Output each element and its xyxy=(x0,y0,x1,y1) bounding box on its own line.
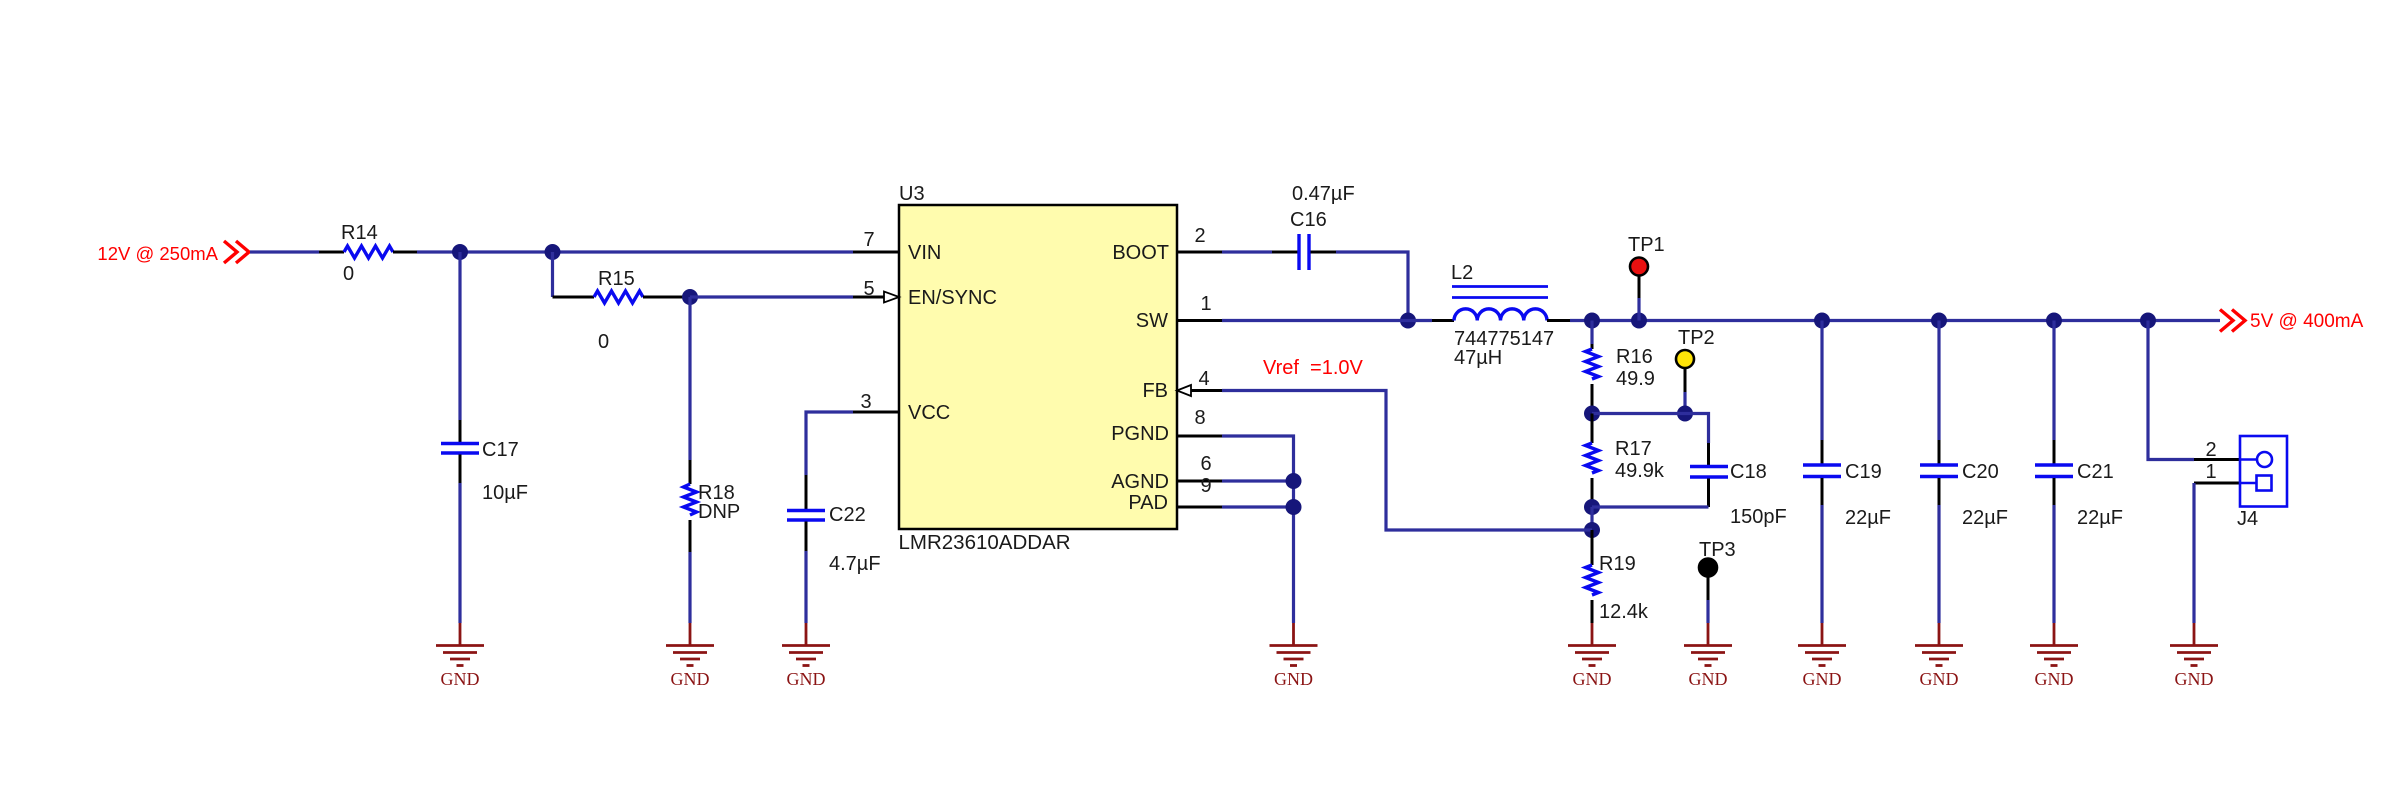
U3 pin 1 (SW) stub xyxy=(1177,319,1222,322)
svg-text:SW: SW xyxy=(1136,310,1168,332)
node junction C19 xyxy=(1814,313,1830,329)
resistor R18 DNP xyxy=(688,297,691,460)
ground under C22 xyxy=(782,623,830,689)
capacitor C21 xyxy=(2052,321,2055,441)
U3 pin 8 (PGND) stub xyxy=(1177,435,1222,438)
svg-text:1: 1 xyxy=(1200,293,1211,315)
svg-text:150pF: 150pF xyxy=(1730,506,1787,528)
output port chevrons xyxy=(2220,310,2233,332)
wire SW pin xyxy=(1222,319,1432,322)
test point TP2 xyxy=(1676,350,1694,368)
wire C18 bottom to R17 bottom xyxy=(1592,505,1709,508)
svg-text:R19: R19 xyxy=(1599,553,1636,575)
svg-text:12V @ 250mA: 12V @ 250mA xyxy=(97,243,218,264)
svg-text:1: 1 xyxy=(2205,461,2216,483)
svg-text:12.4k: 12.4k xyxy=(1599,601,1649,623)
wire AGND xyxy=(1222,479,1294,482)
ground under R19 xyxy=(1568,623,1616,689)
svg-text:C19: C19 xyxy=(1845,461,1882,483)
ground under J4 xyxy=(2170,623,2218,689)
svg-text:0.47µF: 0.47µF xyxy=(1292,183,1355,205)
svg-text:5: 5 xyxy=(863,278,874,300)
U3 pin 7 (VIN) stub xyxy=(853,251,899,254)
svg-text:R16: R16 xyxy=(1616,346,1653,368)
ground under TP3 xyxy=(1684,623,1732,689)
node junction C20 xyxy=(1931,313,1947,329)
svg-text:4: 4 xyxy=(1198,368,1209,390)
svg-text:47µH: 47µH xyxy=(1454,347,1502,369)
wire EN branch down xyxy=(551,252,554,297)
ground under C19 xyxy=(1798,623,1846,689)
U3 pin 2 (BOOT) stub xyxy=(1177,251,1222,254)
svg-text:C21: C21 xyxy=(2077,461,2114,483)
U3 pin 6 (AGND) stub xyxy=(1177,480,1222,483)
svg-text:4.7µF: 4.7µF xyxy=(829,553,881,575)
capacitor C19 xyxy=(1820,321,1823,441)
svg-text:R14: R14 xyxy=(341,222,378,244)
svg-text:2: 2 xyxy=(1194,225,1205,247)
svg-text:EN/SYNC: EN/SYNC xyxy=(908,287,997,309)
wire R16 junction to C18 xyxy=(1592,414,1709,444)
wire R14 to VIN xyxy=(417,250,853,253)
ground under C20 xyxy=(1915,623,1963,689)
wire J4 pin1 to ground xyxy=(2192,483,2195,623)
svg-text:DNP: DNP xyxy=(698,501,740,523)
svg-text:0: 0 xyxy=(598,331,609,353)
svg-text:C20: C20 xyxy=(1962,461,1999,483)
svg-text:C16: C16 xyxy=(1290,209,1327,231)
node junction R16 xyxy=(1584,313,1600,329)
svg-text:TP3: TP3 xyxy=(1699,539,1736,561)
wire input to R14 xyxy=(250,250,319,253)
capacitor C17 xyxy=(458,252,461,420)
test point TP1 xyxy=(1630,258,1648,276)
resistor R14 xyxy=(319,251,344,254)
node junction R16/R17 xyxy=(1584,406,1600,422)
svg-text:R15: R15 xyxy=(598,268,635,290)
ground under R18 xyxy=(666,623,714,689)
svg-text:U3: U3 xyxy=(899,183,925,205)
svg-text:49.9: 49.9 xyxy=(1616,368,1655,390)
wire output rail xyxy=(1570,319,2220,322)
node junction R17 bottom xyxy=(1584,499,1600,515)
svg-text:FB: FB xyxy=(1142,380,1168,402)
svg-text:L2: L2 xyxy=(1451,262,1473,284)
input port chevrons xyxy=(224,241,237,263)
wire R17 bottom to FB node xyxy=(1590,507,1593,530)
inductor L2 xyxy=(1432,319,1454,322)
svg-text:0: 0 xyxy=(343,263,354,285)
U3 pin 4 (FB) stub xyxy=(1191,389,1222,392)
node junction J4 xyxy=(2140,313,2156,329)
connector J4 pin 1 stub xyxy=(2194,482,2240,485)
wire J4 branch xyxy=(2148,321,2194,460)
node junction TP1 xyxy=(1631,313,1647,329)
svg-text:TP2: TP2 xyxy=(1678,327,1715,349)
U3 pin 9 (PAD) stub xyxy=(1177,506,1222,509)
wire PGND xyxy=(1222,436,1294,623)
connector J4 body xyxy=(2237,436,2287,530)
capacitor C18 xyxy=(1707,443,1710,465)
connector J4 pin 2 stub xyxy=(2194,458,2240,461)
svg-text:3: 3 xyxy=(860,391,871,413)
svg-text:TP1: TP1 xyxy=(1628,234,1665,256)
node junction TP2/C18 xyxy=(1677,406,1693,422)
svg-text:22µF: 22µF xyxy=(2077,507,2123,529)
svg-text:PGND: PGND xyxy=(1111,423,1169,445)
wire FB feedback xyxy=(1222,391,1592,531)
svg-text:R17: R17 xyxy=(1615,438,1652,460)
U3 pin 3 (VCC) stub xyxy=(853,411,899,414)
svg-text:10µF: 10µF xyxy=(482,482,528,504)
svg-text:49.9k: 49.9k xyxy=(1615,460,1665,482)
resistor R15 xyxy=(553,296,595,299)
svg-text:VCC: VCC xyxy=(908,402,950,424)
svg-text:VIN: VIN xyxy=(908,242,941,264)
node junction C21 xyxy=(2046,313,2062,329)
svg-text:5V @ 400mA: 5V @ 400mA xyxy=(2250,311,2364,332)
svg-text:C17: C17 xyxy=(482,439,519,461)
ground under PGND xyxy=(1270,623,1318,689)
capacitor C16 xyxy=(1222,250,1272,253)
svg-text:J4: J4 xyxy=(2237,508,2258,530)
svg-text:PAD: PAD xyxy=(1128,492,1168,514)
svg-text:7: 7 xyxy=(863,229,874,251)
wire PAD xyxy=(1222,505,1294,508)
node junction AGND xyxy=(1286,473,1302,489)
capacitor C20 xyxy=(1937,321,1940,441)
ground under C21 xyxy=(2030,623,2078,689)
node junction at C17 xyxy=(452,244,468,260)
svg-text:9: 9 xyxy=(1200,475,1211,497)
svg-text:22µF: 22µF xyxy=(1845,507,1891,529)
svg-text:C18: C18 xyxy=(1730,461,1767,483)
node junction at EN branch xyxy=(545,244,561,260)
svg-text:BOOT: BOOT xyxy=(1112,242,1169,264)
op-amp U3 body xyxy=(899,205,1177,529)
resistor R19 xyxy=(1591,530,1594,565)
wire R15 to EN/SYNC xyxy=(690,295,853,298)
U3 pin 5 (EN/SYNC) stub xyxy=(853,296,884,299)
svg-text:6: 6 xyxy=(1200,453,1211,475)
test point TP3 xyxy=(1699,559,1717,577)
svg-text:2: 2 xyxy=(2205,439,2216,461)
wire BOOT to SW rail xyxy=(1336,252,1408,321)
svg-text:Vref =1.0V: Vref =1.0V xyxy=(1263,357,1364,379)
node junction PAD xyxy=(1286,499,1302,515)
ground under C17 xyxy=(436,623,484,689)
svg-text:AGND: AGND xyxy=(1111,471,1169,493)
resistor R17 xyxy=(1591,414,1594,444)
svg-text:C22: C22 xyxy=(829,504,866,526)
svg-text:8: 8 xyxy=(1194,407,1205,429)
svg-text:22µF: 22µF xyxy=(1962,507,2008,529)
capacitor C22 xyxy=(806,412,853,475)
node junction at R18 xyxy=(682,289,698,305)
node junction SW xyxy=(1400,313,1416,329)
svg-text:LMR23610ADDAR: LMR23610ADDAR xyxy=(899,531,1071,554)
resistor R16 xyxy=(1590,321,1593,345)
node junction FB xyxy=(1584,522,1600,538)
